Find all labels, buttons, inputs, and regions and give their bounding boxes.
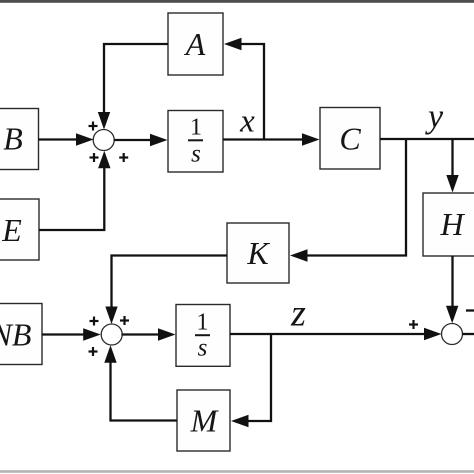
wire z feedback down to M xyxy=(245,334,271,421)
arrowhead into S2 top xyxy=(105,307,117,325)
wire S3 output to right edge xyxy=(463,333,474,335)
plus sign S1 bottom-right xyxy=(119,153,128,162)
wire y down to H xyxy=(451,139,453,177)
arrowhead into U2 xyxy=(158,328,176,340)
arrowhead into S1 left xyxy=(76,133,94,145)
svg-text:K: K xyxy=(246,235,270,271)
summing junction S2 xyxy=(101,324,122,345)
block NB xyxy=(0,304,42,365)
wire C output to right edge (node y) xyxy=(380,138,474,140)
arrowhead into H top xyxy=(446,175,458,193)
wire y down to K xyxy=(304,139,406,256)
arrowhead into U1 xyxy=(150,134,168,146)
arrowhead into K right xyxy=(290,249,308,261)
plus sign S1 top-left xyxy=(89,122,98,131)
block H xyxy=(423,193,474,256)
svg-text:NB: NB xyxy=(0,317,31,353)
plus sign at S3 left input xyxy=(409,320,418,329)
integrator U1 (1/s) xyxy=(168,111,223,173)
block K xyxy=(227,223,289,283)
svg-text:H: H xyxy=(439,206,465,242)
svg-text:x: x xyxy=(239,104,255,140)
arrowhead into C xyxy=(302,133,320,145)
wire U1 output to C (node x) xyxy=(223,138,307,140)
svg-text:E: E xyxy=(1,212,22,248)
arrowhead into S2 left xyxy=(83,328,101,340)
wire x feedback to A xyxy=(241,44,264,140)
arrowhead into S1 top xyxy=(98,112,110,130)
arrowhead into S3 top xyxy=(446,306,458,324)
block E xyxy=(0,199,39,260)
svg-text:B: B xyxy=(3,121,23,157)
wire B to S1 xyxy=(39,138,80,140)
svg-text:s: s xyxy=(198,335,208,362)
svg-text:A: A xyxy=(184,26,206,62)
arrowhead into S1 bottom xyxy=(98,151,110,169)
bottom gray bar xyxy=(0,470,474,473)
block B xyxy=(0,109,39,170)
block A xyxy=(168,13,223,75)
block C xyxy=(320,108,380,170)
arrowhead into M right xyxy=(231,415,249,427)
wire U2 output to S3 (node z) xyxy=(230,333,428,335)
plus sign S1 bottom-left xyxy=(90,153,99,162)
wire E output to S1 bottom xyxy=(39,167,104,230)
plus sign S2 top-right xyxy=(120,316,129,325)
wire NB to S2 xyxy=(42,333,86,335)
minus sign at S3 xyxy=(466,309,474,311)
plus sign S2 bottom-left xyxy=(89,347,98,356)
svg-text:1: 1 xyxy=(197,310,209,336)
wire S1 to integrator U1 xyxy=(114,139,154,141)
top gray bar xyxy=(0,0,474,3)
wire S2 to integrator U2 xyxy=(121,333,162,335)
arrowhead into S2 bottom xyxy=(104,345,116,363)
svg-text:M: M xyxy=(190,403,220,439)
arrowhead into A right xyxy=(224,38,242,50)
svg-text:y: y xyxy=(425,99,444,136)
svg-text:C: C xyxy=(339,121,361,157)
summing junction S1 xyxy=(93,130,114,151)
block M xyxy=(177,390,230,451)
svg-text:1: 1 xyxy=(190,115,202,141)
summing junction S3 xyxy=(442,324,463,345)
plus sign S2 top-left xyxy=(90,317,99,326)
svg-text:z: z xyxy=(290,293,306,335)
wire A output to S1 top xyxy=(104,44,168,114)
wire K output to S2 top xyxy=(112,256,228,309)
integrator U2 (1/s) xyxy=(176,305,230,367)
wire M output to S2 bottom xyxy=(111,362,178,421)
wire H output to S3 top xyxy=(451,256,453,308)
arrowhead into S3 left xyxy=(424,328,442,340)
svg-text:s: s xyxy=(191,141,201,168)
